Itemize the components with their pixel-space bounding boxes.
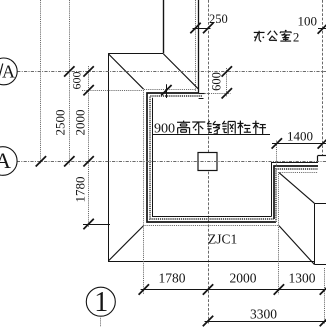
svg-text:1780: 1780 bbox=[158, 271, 185, 286]
svg-text:0: 0 bbox=[168, 121, 175, 137]
svg-text:600: 600 bbox=[209, 72, 223, 91]
svg-text:2000: 2000 bbox=[229, 271, 256, 286]
svg-text:9: 9 bbox=[154, 121, 161, 137]
svg-text:2500: 2500 bbox=[53, 110, 68, 136]
svg-text:250: 250 bbox=[209, 12, 228, 26]
svg-text:1300: 1300 bbox=[288, 271, 315, 286]
svg-text:A: A bbox=[2, 62, 15, 82]
svg-text:1: 1 bbox=[94, 287, 108, 318]
svg-text:2000: 2000 bbox=[73, 110, 88, 136]
svg-text:1780: 1780 bbox=[73, 177, 88, 203]
svg-text:ZJC1: ZJC1 bbox=[208, 232, 237, 247]
svg-text:600: 600 bbox=[70, 72, 84, 90]
svg-text:1400: 1400 bbox=[287, 129, 313, 144]
svg-text:A: A bbox=[0, 148, 11, 173]
svg-text:100: 100 bbox=[297, 14, 317, 29]
svg-text:3300: 3300 bbox=[250, 307, 277, 322]
svg-text:0: 0 bbox=[161, 121, 168, 137]
svg-text:2: 2 bbox=[293, 29, 299, 44]
